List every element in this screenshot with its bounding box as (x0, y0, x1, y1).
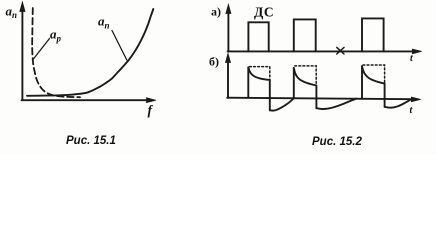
differentiated spike 2: recovery (317, 99, 357, 109)
left figure: x-axis (22, 98, 156, 103)
leader line to a_n label (112, 31, 127, 61)
differentiated spike 1: decay (248, 67, 269, 80)
leader line to a_p label (33, 39, 50, 60)
right figure b): time axis (227, 97, 420, 102)
break mark x on axis (337, 47, 344, 54)
differentiated spike 1: rise (247, 67, 249, 97)
dotted pulse outline 1 (250, 67, 270, 80)
curve a_n (solid, rising) (27, 9, 153, 96)
right figure a): y-axis (226, 5, 231, 52)
pulse 3 (row a) (362, 18, 384, 51)
svg-text:б): б) (209, 55, 219, 69)
differentiated spike 3: fall below axis (384, 84, 386, 107)
differentiated spike 3: rise (361, 66, 363, 99)
differentiated spike 1: fall below axis (269, 80, 271, 110)
right figure a): time axis (228, 49, 422, 54)
differentiated spike 3: decay (362, 66, 385, 83)
svg-text:Рис. 15.2: Рис. 15.2 (312, 136, 362, 148)
differentiated spike 1: recovery (270, 99, 294, 111)
svg-text:ДС: ДС (254, 5, 274, 20)
svg-text:Рис. 15.1: Рис. 15.1 (66, 135, 116, 147)
dotted pulse outline 2 (295, 66, 316, 85)
differentiated spike 3: recovery (385, 99, 412, 107)
left figure: y-axis (20, 2, 25, 100)
pulse 1 (row a) (248, 22, 268, 51)
curve a_p (dashed, falling) (32, 8, 80, 97)
dotted pulse outline 3 (363, 65, 385, 83)
differentiated spike 2: rise (293, 68, 295, 98)
pulse 2 (row a) (294, 19, 316, 51)
differentiated spike 2: fall below axis (315, 86, 317, 109)
differentiated spike 2: decay (294, 68, 316, 85)
right figure b): y-axis (226, 54, 231, 98)
svg-text:а): а) (211, 5, 221, 19)
